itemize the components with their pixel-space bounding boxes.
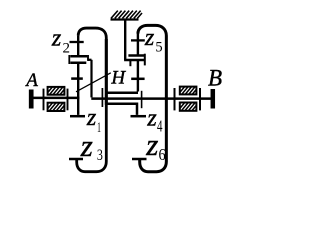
svg-text:B: B — [208, 66, 222, 91]
svg-text:6: 6 — [159, 145, 166, 164]
svg-text:z: z — [80, 128, 93, 163]
svg-text:3: 3 — [97, 147, 103, 164]
svg-text:4: 4 — [157, 116, 163, 135]
svg-text:z: z — [51, 25, 62, 51]
svg-text:A: A — [24, 70, 38, 91]
svg-text:2: 2 — [63, 40, 71, 56]
svg-text:5: 5 — [155, 40, 162, 56]
svg-text:1: 1 — [97, 120, 101, 136]
svg-text:H: H — [110, 68, 126, 89]
svg-text:z: z — [144, 25, 155, 51]
